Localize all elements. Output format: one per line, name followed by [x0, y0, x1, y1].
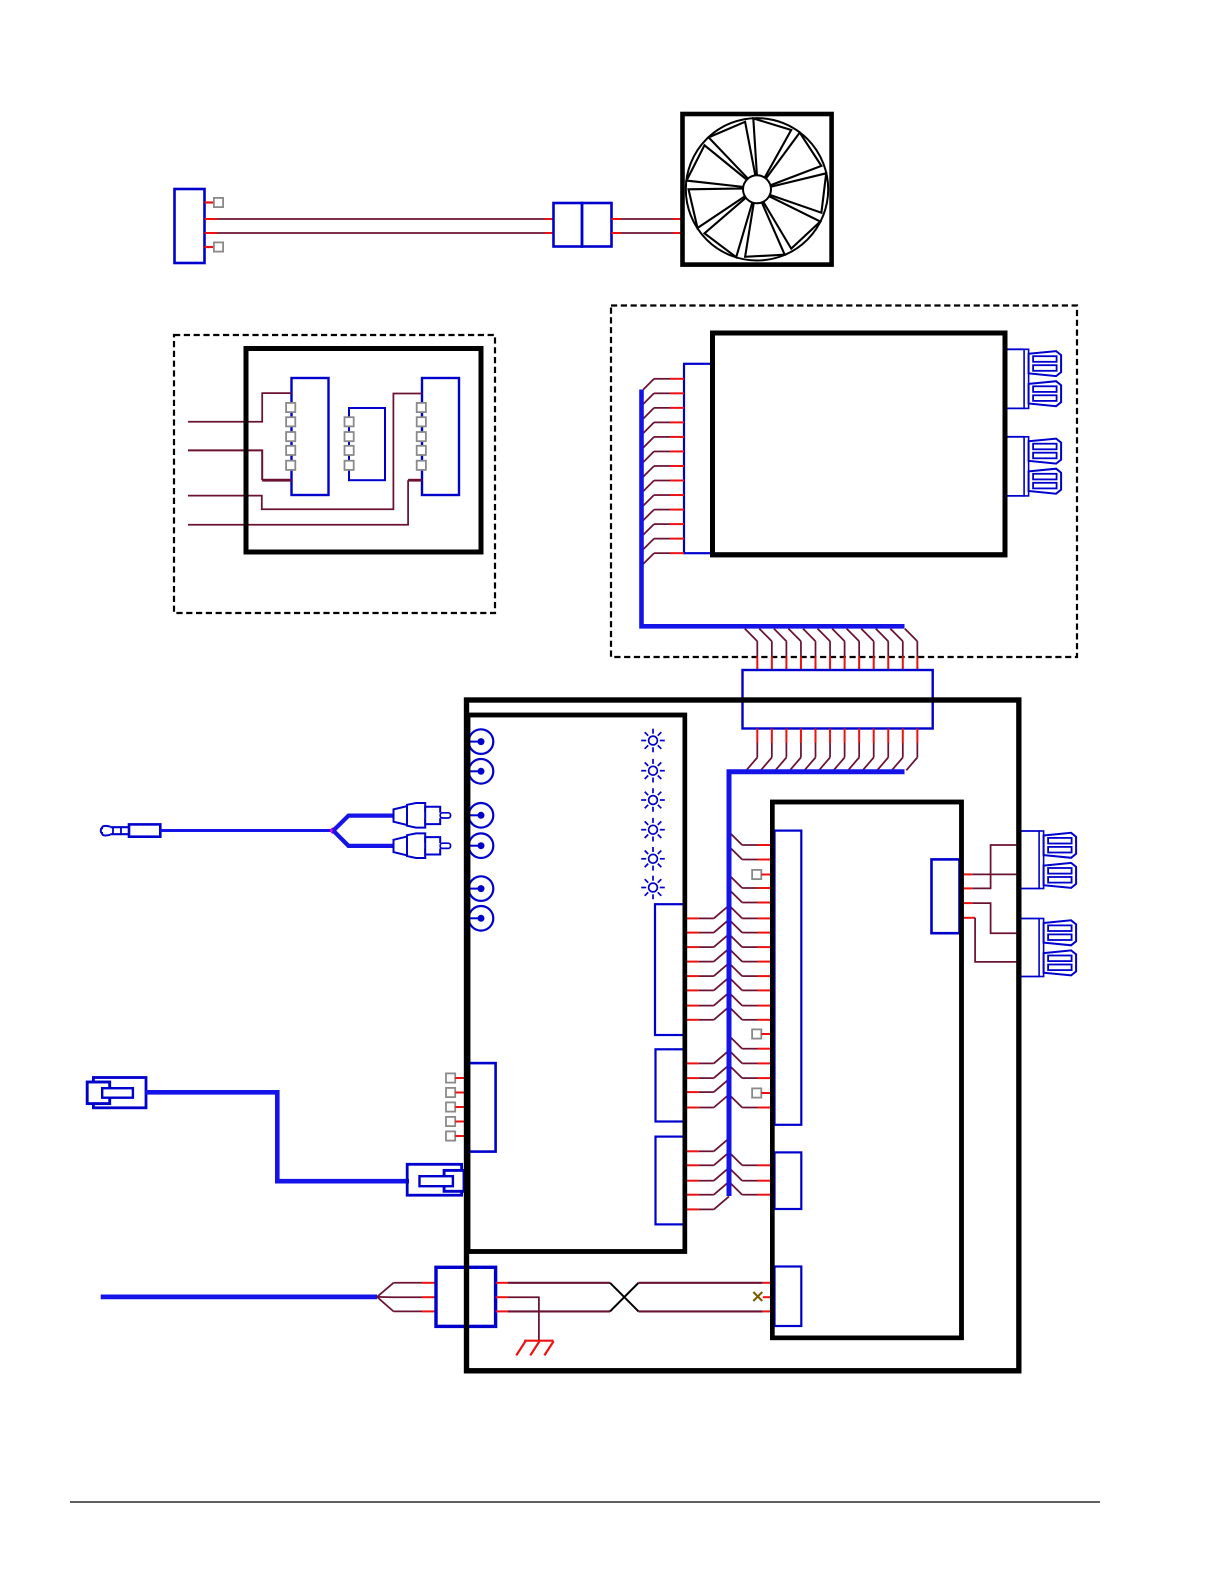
- right module box outline overlay: [772, 802, 961, 1338]
- main unit box outline overlay: [467, 700, 1019, 1371]
- connector B2 pin squares: [345, 417, 354, 426]
- CG unconnected pin squares: [446, 1073, 455, 1082]
- left module box (inside main unit): [468, 715, 685, 1252]
- wire J1 pin2 to J2 (red+): [205, 218, 218, 220]
- connector CB: [656, 1049, 685, 1121]
- connector CD: [775, 1152, 802, 1209]
- wires CC to CD (chevron group 3): [687, 1150, 699, 1152]
- wires CA to CR (chevron group): [687, 917, 699, 919]
- module M2 box outline overlay: [713, 333, 1006, 555]
- wire CH pin1 (crossover): [496, 1282, 508, 1284]
- no-connect X mark: [753, 1292, 762, 1301]
- wire M1 input 2: [188, 450, 262, 480]
- module M1 box outline overlay: [246, 349, 481, 553]
- wire M1 input 3: [188, 394, 422, 510]
- connector B2 (4-pin): [349, 408, 385, 480]
- modular plug P4: [93, 1078, 146, 1108]
- comb terminal group T1: [1005, 348, 1025, 350]
- wire M1 input 4: [188, 480, 408, 525]
- cable bundle W1: [642, 390, 905, 627]
- connector CF (4-pin): [932, 859, 960, 933]
- wire M1 input 1: [188, 393, 292, 422]
- wire CH pin2 to ground: [496, 1296, 508, 1298]
- dashed enclosure (right module): [611, 306, 1077, 658]
- module M1 box: [246, 349, 481, 553]
- main unit box: [467, 700, 1019, 1371]
- inline connector J2 right half: [582, 203, 612, 247]
- wire J2 to fan (-): [612, 232, 622, 234]
- CR unconnected pin squares: [752, 870, 761, 879]
- connector C2 (5-pin): [422, 378, 459, 495]
- pin J1-1 stub: [205, 201, 214, 203]
- wire bundle to CR mid: [729, 1036, 742, 1049]
- cable split node: [330, 827, 336, 833]
- wire CF pin2: [964, 887, 972, 889]
- RCA jack sockets J3-J8: [469, 729, 494, 754]
- ground symbol: [524, 1340, 553, 1342]
- pin J1-4 stub: [205, 246, 214, 248]
- RCA plug P3: [394, 837, 408, 856]
- cable bundle W2 overlay: [727, 772, 732, 1196]
- pin J1-4 unconnected square: [214, 242, 223, 251]
- wire CF pin1: [964, 873, 972, 875]
- cable bundle W2: [729, 772, 905, 1196]
- wires CN1 pins to bundle: [670, 378, 684, 380]
- module M2 box: [713, 333, 1006, 555]
- wires CB to CR (chevron group 2): [687, 1062, 699, 1064]
- comb terminal group T4: [1020, 918, 1040, 920]
- connector CE: [775, 1267, 802, 1327]
- wire J1 pin3 to J2 (black-): [205, 232, 218, 234]
- connector CN1 (13-pin): [684, 364, 713, 553]
- connector CC: [656, 1137, 685, 1225]
- wire CH pin3 (crossover): [496, 1310, 508, 1312]
- connector CN2 (12-pin straddling box edge): [743, 670, 933, 729]
- cable fan-out wires: [377, 1283, 394, 1297]
- connector A2 pin squares: [286, 403, 295, 412]
- CE middle pin stub: [763, 1296, 772, 1298]
- wires bundle W1 to CN2: [745, 629, 758, 642]
- power cable: [101, 1295, 377, 1300]
- wire CF pin4: [964, 917, 975, 919]
- inline connector J2 left half: [554, 203, 583, 247]
- connector CA: [655, 904, 685, 1035]
- right module box (inside main unit): [772, 802, 961, 1338]
- wires bundle W2 to CR (top group): [729, 832, 742, 845]
- wire CF pin3: [964, 902, 972, 904]
- pin J1-1 unconnected square: [214, 198, 223, 207]
- audio branch L: [333, 816, 394, 831]
- audio branch R: [333, 831, 394, 846]
- comb terminal group T3: [1020, 830, 1040, 832]
- connector C2 pin squares: [417, 403, 426, 412]
- fan FN1: [683, 114, 832, 265]
- footer rule: [70, 1501, 1100, 1503]
- comb terminal group T2: [1005, 436, 1025, 438]
- LED indicators D1-D6: [649, 736, 658, 745]
- connector CR tall: [775, 831, 802, 1125]
- left module box outline overlay: [468, 715, 685, 1252]
- 3.5mm jack plug P1: [129, 824, 160, 836]
- RCA plug P2: [394, 806, 408, 825]
- modular plug P5: [407, 1164, 461, 1195]
- connector J1 fan power plug: [175, 189, 205, 263]
- dashed enclosure (left module): [174, 335, 495, 613]
- wire J2 to fan (+): [612, 218, 622, 220]
- connector CH (3-pin straddling box edge): [436, 1267, 496, 1326]
- connector A2 (5-pin): [292, 378, 329, 495]
- wires CN2 to bundle W2: [756, 729, 758, 744]
- data cable: [146, 1092, 410, 1181]
- audio cable: [160, 829, 333, 832]
- connector CG (5-pin): [468, 1063, 496, 1152]
